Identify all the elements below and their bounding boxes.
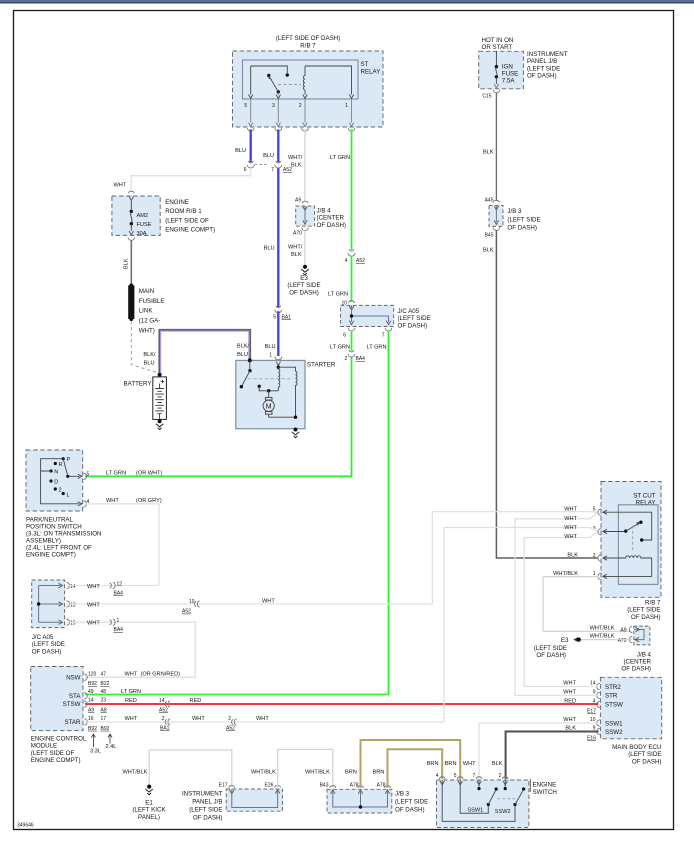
ground E1 left kick panel bbox=[147, 785, 151, 789]
svg-text:A70: A70 bbox=[293, 231, 302, 237]
svg-text:WHT/BLK: WHT/BLK bbox=[590, 634, 615, 640]
svg-text:IGN: IGN bbox=[502, 64, 513, 71]
svg-text:WHT: WHT bbox=[106, 498, 119, 504]
svg-text:6: 6 bbox=[343, 333, 346, 339]
svg-text:(CENTER: (CENTER bbox=[317, 215, 345, 222]
svg-text:(CENTER: (CENTER bbox=[624, 659, 652, 666]
svg-text:2: 2 bbox=[345, 356, 348, 362]
svg-text:WHT/BLK: WHT/BLK bbox=[553, 571, 578, 577]
wire LT GRN from ST relay pin 1 bbox=[351, 130, 353, 251]
svg-text:E26: E26 bbox=[264, 783, 273, 789]
svg-text:MODULE: MODULE bbox=[31, 743, 57, 750]
svg-text:E17: E17 bbox=[219, 783, 228, 789]
mechanical link dashes bbox=[632, 526, 634, 552]
svg-text:LT GRN: LT GRN bbox=[106, 470, 126, 476]
svg-text:WHT: WHT bbox=[125, 716, 138, 722]
svg-text:BLK: BLK bbox=[483, 150, 494, 156]
J/B 3 #2 box bbox=[327, 789, 392, 813]
gang dashes to connector 7 bbox=[255, 164, 269, 166]
svg-text:B22: B22 bbox=[101, 681, 110, 687]
relay coil bbox=[603, 556, 652, 577]
svg-text:17: 17 bbox=[101, 716, 107, 722]
svg-text:FUSIBLE: FUSIBLE bbox=[139, 298, 165, 305]
svg-text:(LEFT SIDE: (LEFT SIDE bbox=[398, 315, 431, 322]
SSW1 contact bbox=[460, 780, 488, 813]
svg-text:J/C A05: J/C A05 bbox=[398, 308, 420, 315]
svg-text:OF DASH): OF DASH) bbox=[536, 652, 566, 659]
svg-text:(LEFT SIDE: (LEFT SIDE bbox=[395, 799, 428, 806]
svg-text:2: 2 bbox=[59, 488, 62, 494]
svg-text:ENGINE: ENGINE bbox=[533, 781, 557, 788]
inline connector 2 A52 bbox=[232, 719, 237, 726]
svg-text:16: 16 bbox=[88, 716, 94, 722]
svg-text:OF DASH): OF DASH) bbox=[621, 666, 651, 673]
svg-text:ENGINE CONTROL: ENGINE CONTROL bbox=[31, 736, 87, 743]
svg-text:LINK: LINK bbox=[139, 308, 154, 315]
svg-text:J/C A05: J/C A05 bbox=[32, 634, 54, 641]
svg-text:(OR GRY): (OR GRY) bbox=[136, 498, 162, 504]
svg-text:LT GRN: LT GRN bbox=[330, 155, 350, 161]
svg-text:5: 5 bbox=[593, 507, 596, 513]
svg-text:WHT/BLK: WHT/BLK bbox=[590, 625, 615, 631]
svg-text:WHT/BLK: WHT/BLK bbox=[123, 770, 148, 776]
svg-text:OF DASH): OF DASH) bbox=[631, 614, 661, 621]
svg-text:BLK/: BLK/ bbox=[237, 344, 250, 350]
instrument panel J/B box bbox=[479, 51, 524, 89]
svg-text:POSITION SWITCH: POSITION SWITCH bbox=[26, 524, 82, 531]
svg-text:WHT: WHT bbox=[564, 507, 577, 513]
svg-text:4: 4 bbox=[436, 773, 439, 779]
svg-text:INSTRUMENT: INSTRUMENT bbox=[182, 790, 223, 797]
svg-text:OF DASH): OF DASH) bbox=[289, 289, 319, 296]
svg-text:LT GRN: LT GRN bbox=[328, 292, 348, 298]
svg-text:10: 10 bbox=[590, 717, 596, 723]
svg-text:J/B 3: J/B 3 bbox=[395, 791, 410, 798]
junction connector J/C A05 (left side of dash) bbox=[349, 301, 355, 303]
svg-text:STR: STR bbox=[605, 693, 618, 700]
svg-text:BLK: BLK bbox=[291, 252, 302, 258]
svg-text:PANEL J/B: PANEL J/B bbox=[527, 58, 557, 65]
svg-text:BLK: BLK bbox=[567, 553, 578, 559]
wire WHT pin15 to ECM NSW bbox=[67, 622, 195, 677]
svg-text:SSW1: SSW1 bbox=[605, 720, 623, 727]
engine room R/B 1 box bbox=[128, 191, 134, 193]
svg-text:J/B 4: J/B 4 bbox=[637, 651, 652, 658]
fuse AM2 30A bbox=[130, 201, 132, 212]
engine switch box bbox=[437, 780, 529, 828]
svg-text:PANEL J/B: PANEL J/B bbox=[192, 798, 222, 805]
svg-text:L: L bbox=[67, 493, 70, 499]
svg-text:MAIN: MAIN bbox=[139, 288, 154, 295]
SSW2 contact bbox=[442, 780, 515, 821]
svg-text:OF DASH): OF DASH) bbox=[527, 73, 557, 80]
pin connector cups bbox=[247, 128, 254, 131]
pin 4 connector bbox=[83, 501, 86, 507]
svg-text:BATTERY: BATTERY bbox=[124, 381, 152, 388]
svg-text:(LEFT SIDE: (LEFT SIDE bbox=[189, 806, 222, 813]
svg-text:R/B 7: R/B 7 bbox=[645, 600, 661, 607]
svg-text:E3: E3 bbox=[300, 275, 308, 282]
starter motor bbox=[268, 391, 270, 397]
dashed leader to battery bbox=[131, 321, 157, 373]
svg-text:PARK/NEUTRAL: PARK/NEUTRAL bbox=[26, 517, 74, 524]
wire WHT/BLK to ground E3 bbox=[304, 231, 306, 265]
svg-text:STAR: STAR bbox=[64, 719, 81, 726]
svg-text:349646: 349646 bbox=[17, 823, 34, 829]
park/neutral position switch box bbox=[26, 450, 83, 511]
svg-text:OF DASH): OF DASH) bbox=[398, 322, 428, 329]
wire WHT to engine room R/B bbox=[131, 168, 250, 192]
svg-text:LT GRN: LT GRN bbox=[367, 345, 387, 351]
svg-text:48: 48 bbox=[101, 689, 107, 695]
inline connector 14 A52 on red wire bbox=[165, 701, 170, 708]
svg-text:A52: A52 bbox=[159, 708, 168, 714]
svg-text:OF DASH): OF DASH) bbox=[507, 224, 537, 231]
ECM pin cups bbox=[84, 674, 87, 725]
svg-text:(LEFT SIDE: (LEFT SIDE bbox=[534, 645, 567, 652]
svg-text:23: 23 bbox=[101, 698, 107, 704]
svg-text:BLU: BLU bbox=[237, 352, 248, 358]
coil to pin1 link bbox=[305, 66, 352, 95]
svg-text:ROOM R/B 1: ROOM R/B 1 bbox=[165, 208, 202, 215]
svg-text:WHT: WHT bbox=[114, 183, 127, 189]
svg-text:R/B 7: R/B 7 bbox=[300, 43, 316, 50]
svg-text:BRN: BRN bbox=[445, 761, 457, 767]
svg-text:30A: 30A bbox=[137, 231, 147, 237]
svg-text:BA1: BA1 bbox=[282, 314, 292, 320]
exit arrow and cup bbox=[129, 231, 133, 235]
svg-text:FUSE: FUSE bbox=[137, 222, 152, 228]
svg-text:SSW2: SSW2 bbox=[605, 729, 623, 736]
junction connector J/C A05 #2 bbox=[32, 580, 65, 628]
main fusible link bbox=[129, 284, 133, 288]
svg-text:BLU: BLU bbox=[144, 361, 155, 367]
mechanical link dashes bbox=[248, 378, 290, 380]
engine control module box bbox=[31, 667, 83, 731]
svg-text:7: 7 bbox=[271, 167, 274, 173]
relay R/B 7 dashed box bbox=[233, 51, 384, 127]
top window bar bbox=[0, 0, 694, 2]
svg-text:(LEFT SIDE: (LEFT SIDE bbox=[287, 282, 320, 289]
svg-text:WHT: WHT bbox=[463, 761, 476, 767]
ST relay coil bbox=[303, 66, 305, 95]
svg-text:E17: E17 bbox=[587, 709, 596, 715]
svg-text:1: 1 bbox=[345, 103, 348, 109]
svg-text:B92: B92 bbox=[88, 681, 97, 687]
svg-text:P: P bbox=[67, 457, 71, 463]
svg-text:7.5A: 7.5A bbox=[502, 78, 516, 85]
wire BLU from ST relay pin 5 bbox=[249, 130, 251, 163]
wire WHT/BLK ST CUT pin1 to J/B4 bbox=[543, 577, 632, 632]
svg-text:7: 7 bbox=[382, 333, 385, 339]
ground E3 left side of dash bbox=[303, 265, 307, 269]
svg-text:NSW: NSW bbox=[66, 674, 81, 681]
svg-text:OR START: OR START bbox=[482, 44, 513, 51]
svg-text:RELAY: RELAY bbox=[636, 500, 656, 507]
starter terminal cup bbox=[275, 357, 282, 360]
wire WHT/BLK ground E1 to instrument panel J/B E17 bbox=[149, 750, 232, 787]
svg-text:LT GRN: LT GRN bbox=[121, 689, 141, 695]
svg-text:RED: RED bbox=[190, 698, 202, 704]
svg-text:2: 2 bbox=[228, 716, 231, 722]
pin connector cups on dashed edge bbox=[598, 509, 601, 580]
pin 5 contact path bbox=[603, 512, 652, 540]
svg-text:(OR GRN/RED): (OR GRN/RED) bbox=[141, 672, 181, 678]
wire WHT MBE STR2 to ST CUT pin3 bbox=[524, 532, 598, 686]
svg-text:D: D bbox=[54, 480, 58, 486]
svg-text:WHT/BLK: WHT/BLK bbox=[251, 770, 276, 776]
svg-text:MAIN BODY ECU: MAIN BODY ECU bbox=[612, 744, 661, 751]
MBE pin cups bbox=[597, 683, 600, 734]
svg-text:WHT: WHT bbox=[563, 681, 576, 687]
svg-text:2: 2 bbox=[162, 716, 165, 722]
wire WHT MBE STR to ST CUT pin5 bbox=[515, 513, 599, 696]
svg-text:RED: RED bbox=[125, 698, 137, 704]
svg-text:13: 13 bbox=[70, 602, 76, 608]
wire WHT pin14 bbox=[67, 585, 159, 587]
svg-text:A70: A70 bbox=[618, 638, 627, 644]
gang dashes between arms bbox=[498, 798, 517, 800]
svg-text:STSW: STSW bbox=[63, 701, 81, 708]
svg-text:4: 4 bbox=[345, 258, 348, 264]
svg-text:WHT: WHT bbox=[256, 716, 269, 722]
svg-text:A52: A52 bbox=[356, 258, 365, 264]
svg-text:2: 2 bbox=[593, 553, 596, 559]
svg-text:1: 1 bbox=[269, 353, 272, 359]
engine switch internals bbox=[478, 780, 480, 787]
svg-text:WHT: WHT bbox=[87, 584, 100, 590]
svg-text:BLU: BLU bbox=[264, 246, 275, 252]
svg-text:A8: A8 bbox=[101, 707, 107, 713]
svg-text:ASSEMBLY): ASSEMBLY) bbox=[26, 538, 61, 545]
svg-text:BA4: BA4 bbox=[114, 627, 124, 633]
inline connector 5 BA1 on BLU wire bbox=[276, 306, 281, 308]
wire BRN J/B3 A78 to engine switch pin 4 bbox=[388, 749, 443, 788]
svg-text:AM2: AM2 bbox=[137, 213, 149, 219]
svg-text:ENGINE: ENGINE bbox=[165, 199, 189, 206]
svg-text:2: 2 bbox=[499, 773, 502, 779]
wire WHT MBE SSW1 to engine switch pin 7 bbox=[479, 723, 598, 779]
inline connector 7 A52 bbox=[276, 161, 281, 163]
svg-text:(LEFT SIDE OF: (LEFT SIDE OF bbox=[31, 750, 75, 757]
svg-text:STSW: STSW bbox=[605, 702, 623, 709]
wire BLU from ST relay pin 3 to starter bbox=[277, 130, 279, 163]
pin arrows at inner box exit bbox=[249, 95, 253, 99]
svg-text:BLK: BLK bbox=[483, 248, 494, 254]
svg-text:(LEFT SIDE: (LEFT SIDE bbox=[627, 607, 660, 614]
svg-text:3: 3 bbox=[272, 103, 275, 109]
IGN fuse 7.5A bbox=[495, 51, 497, 66]
svg-text:BLU: BLU bbox=[263, 153, 274, 159]
svg-text:WHT: WHT bbox=[125, 672, 138, 678]
svg-text:BRN: BRN bbox=[427, 761, 439, 767]
svg-text:WHT: WHT bbox=[87, 602, 100, 608]
pin 3 switch pivot and arm bbox=[603, 531, 626, 533]
ST relay inner box bbox=[243, 60, 359, 99]
svg-text:C15: C15 bbox=[482, 94, 491, 100]
svg-text:N: N bbox=[54, 470, 58, 476]
svg-text:2: 2 bbox=[299, 103, 302, 109]
svg-text:OF DASH): OF DASH) bbox=[632, 758, 662, 765]
wire WHT/BLK J/B4 A70 to ground E3 bbox=[580, 639, 632, 641]
svg-text:ENGINE COMPT): ENGINE COMPT) bbox=[31, 757, 81, 764]
battery ground bbox=[158, 419, 162, 423]
svg-text:WHT: WHT bbox=[564, 534, 577, 540]
svg-text:BLK/: BLK/ bbox=[143, 352, 156, 358]
fuse exit arrow and connector C15 bbox=[494, 84, 498, 88]
svg-text:STA: STA bbox=[69, 693, 81, 700]
PNP contacts P R N D 2 L bbox=[62, 457, 65, 460]
svg-text:B92: B92 bbox=[88, 726, 97, 732]
svg-text:47: 47 bbox=[101, 672, 107, 678]
svg-text:OF DASH): OF DASH) bbox=[193, 814, 223, 821]
inline connector 10 A52 bbox=[195, 601, 200, 608]
svg-text:BA1: BA1 bbox=[160, 726, 170, 732]
svg-text:WHT: WHT bbox=[563, 690, 576, 696]
internal bus bbox=[39, 586, 61, 623]
svg-text:WHT: WHT bbox=[563, 717, 576, 723]
svg-text:WHT: WHT bbox=[87, 621, 100, 627]
wire WHT/BLK from ST relay pin 2 bbox=[304, 130, 306, 201]
inline connector 2 BA1 bbox=[165, 719, 170, 726]
svg-text:WHT: WHT bbox=[262, 599, 275, 605]
svg-text:BA4: BA4 bbox=[356, 356, 366, 362]
svg-text:A9: A9 bbox=[295, 198, 301, 204]
svg-text:STARTER: STARTER bbox=[307, 362, 336, 369]
svg-text:BA4: BA4 bbox=[114, 590, 124, 596]
svg-text:E1: E1 bbox=[145, 800, 153, 807]
svg-text:5: 5 bbox=[273, 314, 276, 320]
svg-text:1: 1 bbox=[117, 618, 120, 624]
svg-text:(LEFT SIDE OF DASH): (LEFT SIDE OF DASH) bbox=[276, 35, 341, 42]
svg-text:SSW1: SSW1 bbox=[467, 808, 483, 814]
svg-text:ENGINE COMPT): ENGINE COMPT) bbox=[26, 552, 76, 559]
BLU entry arrow into starter bbox=[276, 362, 280, 366]
wire LT GRN pin 6 to PNP switch bbox=[351, 331, 353, 351]
svg-text:5: 5 bbox=[87, 472, 90, 478]
wire WHT/BLK E26 to J/B3 B43 bbox=[278, 749, 333, 789]
wire BLK from C15 to J/B 3 bbox=[495, 93, 497, 202]
svg-text:(LEFT SIDE: (LEFT SIDE bbox=[32, 641, 65, 648]
starter pull-in coil bbox=[278, 367, 280, 391]
svg-text:14: 14 bbox=[88, 698, 94, 704]
svg-text:B45: B45 bbox=[485, 233, 494, 239]
pin stub wires to box edge bbox=[251, 99, 352, 123]
svg-text:WHT): WHT) bbox=[139, 327, 155, 334]
svg-text:7: 7 bbox=[473, 773, 476, 779]
wire WHT PNP pin4 to J/C A05 bbox=[85, 504, 159, 586]
battery bbox=[158, 373, 162, 377]
svg-text:SWITCH: SWITCH bbox=[533, 789, 557, 796]
svg-text:6: 6 bbox=[244, 167, 247, 173]
svg-text:WHT: WHT bbox=[192, 716, 205, 722]
svg-text:BLU: BLU bbox=[265, 344, 276, 350]
svg-text:(LEFT KICK: (LEFT KICK bbox=[132, 807, 166, 814]
svg-text:PANEL): PANEL) bbox=[138, 814, 160, 821]
wire BLK down to fusible link bbox=[130, 241, 132, 286]
svg-text:14: 14 bbox=[70, 584, 76, 590]
wire BLK MBE SSW2 to engine switch pin 3 bbox=[506, 732, 599, 780]
svg-text:BLK: BLK bbox=[124, 258, 130, 269]
svg-text:ST CUT: ST CUT bbox=[633, 492, 655, 499]
svg-text:OF DASH): OF DASH) bbox=[32, 648, 62, 655]
svg-text:BRN: BRN bbox=[345, 770, 357, 776]
svg-text:J/B 3: J/B 3 bbox=[507, 208, 522, 215]
mechanical link dashes bbox=[278, 84, 301, 86]
svg-text:A9: A9 bbox=[620, 628, 626, 634]
svg-text:(LEFT SIDE: (LEFT SIDE bbox=[507, 216, 540, 223]
svg-text:A45: A45 bbox=[485, 198, 494, 204]
svg-text:(2.4L: LEFT FRONT OF: (2.4L: LEFT FRONT OF bbox=[26, 545, 92, 552]
entry arrow bbox=[129, 197, 133, 201]
pin 5 connector bbox=[83, 473, 86, 479]
svg-text:E16: E16 bbox=[587, 736, 596, 742]
main body ECU box bbox=[600, 677, 661, 739]
starter box bbox=[236, 360, 305, 428]
svg-text:WHT: WHT bbox=[564, 516, 577, 522]
svg-text:(LEFT SIDE: (LEFT SIDE bbox=[527, 65, 560, 72]
svg-text:STR2: STR2 bbox=[605, 684, 621, 691]
svg-text:3.3L: 3.3L bbox=[90, 749, 101, 755]
inline connector 12 BA4 bbox=[110, 582, 115, 589]
wire BRN J/B3 A78 to engine switch pin 5 bbox=[361, 740, 461, 788]
starter ground bbox=[294, 428, 298, 432]
svg-text:BLU: BLU bbox=[235, 148, 246, 154]
svg-text:12: 12 bbox=[117, 581, 123, 587]
svg-text:10: 10 bbox=[189, 599, 195, 605]
wire WHT ECM STAR to ST CUT pin3 bbox=[85, 528, 597, 723]
svg-text:15: 15 bbox=[70, 621, 76, 627]
ST relay switch bbox=[251, 66, 288, 95]
svg-text:A52: A52 bbox=[226, 726, 235, 732]
PNP switch arm bbox=[63, 459, 79, 477]
svg-text:SSW2: SSW2 bbox=[495, 809, 511, 815]
svg-text:(LEFT SIDE: (LEFT SIDE bbox=[628, 751, 661, 758]
svg-text:49: 49 bbox=[88, 689, 94, 695]
svg-text:B92: B92 bbox=[101, 726, 110, 732]
engine switch pin cups bbox=[439, 777, 508, 779]
svg-text:14: 14 bbox=[590, 681, 596, 687]
svg-text:9: 9 bbox=[593, 690, 596, 696]
ST CUT relay inner box bbox=[618, 505, 658, 585]
svg-text:B43: B43 bbox=[320, 783, 329, 789]
starter hold-in coil bbox=[278, 367, 297, 417]
svg-text:HOT IN ON: HOT IN ON bbox=[482, 37, 514, 44]
svg-text:RELAY: RELAY bbox=[361, 69, 381, 76]
instrument panel J/B #2 box bbox=[226, 789, 282, 811]
svg-text:J/B 4: J/B 4 bbox=[317, 208, 332, 215]
fixed contact to motor junction bbox=[258, 385, 261, 388]
wire BLK/BLU battery to starter bbox=[159, 330, 250, 375]
svg-text:5: 5 bbox=[454, 773, 457, 779]
svg-text:ST: ST bbox=[361, 61, 369, 68]
wire BLK J/B3 to ST CUT relay coil bbox=[496, 231, 597, 559]
ST CUT relay dashed box R/B 7 bbox=[601, 482, 661, 598]
engine size arrows bbox=[91, 734, 95, 747]
svg-text:BLK: BLK bbox=[291, 163, 302, 169]
svg-text:WHT/: WHT/ bbox=[288, 245, 303, 251]
svg-text:BLK: BLK bbox=[492, 761, 503, 767]
svg-text:(3.3L: ON TRANSMISSION: (3.3L: ON TRANSMISSION bbox=[26, 531, 102, 538]
svg-text:E3: E3 bbox=[561, 637, 569, 644]
svg-text:(12 GA-: (12 GA- bbox=[139, 318, 161, 325]
svg-text:OF DASH): OF DASH) bbox=[317, 222, 347, 229]
svg-text:FUSE: FUSE bbox=[502, 71, 519, 78]
wire LT GRN pin 7 to ECM STA bbox=[85, 331, 389, 695]
svg-text:R: R bbox=[59, 462, 63, 468]
ground E3 #2 bbox=[573, 637, 577, 641]
svg-text:ENGINE COMPT): ENGINE COMPT) bbox=[165, 227, 215, 234]
